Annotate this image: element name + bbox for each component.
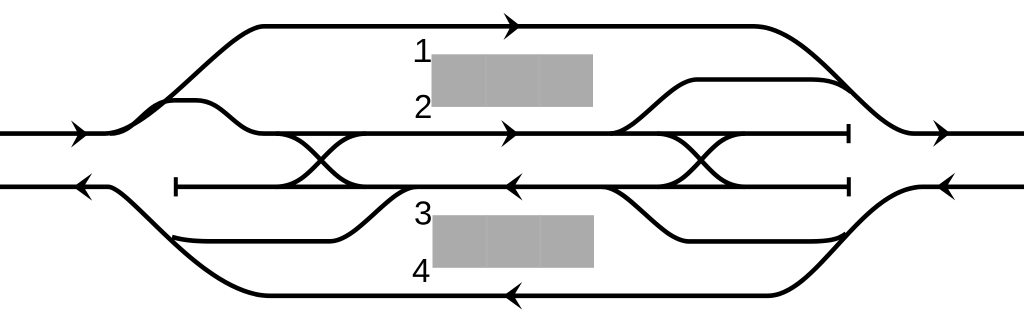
crossover right up diagonal bbox=[657, 134, 745, 187]
arrow up exit bbox=[933, 120, 950, 147]
turnout return hump and track 2 bbox=[110, 100, 849, 133]
arrow track 3 siding bbox=[504, 173, 523, 201]
arrow track 2 centre bbox=[501, 120, 518, 147]
svg-text:2: 2 bbox=[414, 88, 432, 125]
loop 3R: siding down to lower loop, merge into down descent bbox=[602, 187, 846, 242]
buffer stop track 2 right bbox=[847, 124, 851, 143]
crossover left up diagonal bbox=[276, 134, 366, 187]
svg-text:3: 3 bbox=[414, 195, 432, 232]
svg-text:1: 1 bbox=[414, 32, 432, 69]
buffer stop track 3 right bbox=[847, 177, 851, 196]
platform 3/4 bbox=[433, 215, 595, 268]
up main route: entry, ramp up, track 1 loop, descent, exit bbox=[0, 26, 1024, 133]
arrow down exit left bbox=[73, 173, 92, 201]
arrow track 1 loop bbox=[504, 13, 521, 40]
loop 2R: track 2 up to upper loop, merge into top descent bbox=[610, 80, 851, 134]
centre siding track 3 bbox=[177, 185, 849, 190]
svg-text:4: 4 bbox=[412, 252, 430, 289]
arrow down entry right bbox=[936, 173, 955, 201]
arrow track 4 loop bbox=[503, 282, 522, 310]
buffer stop track 3 left bbox=[174, 177, 178, 196]
crossover left down diagonal bbox=[276, 134, 366, 187]
platform 1/2 bbox=[432, 54, 594, 107]
arrow up entry bbox=[71, 120, 88, 147]
loop 3L: from down descent, flat, merge into siding bbox=[172, 187, 417, 242]
down main route: exit left, descent, track 4 loop, ascent, entry right bbox=[0, 187, 1024, 296]
crossover right down diagonal bbox=[657, 134, 745, 187]
